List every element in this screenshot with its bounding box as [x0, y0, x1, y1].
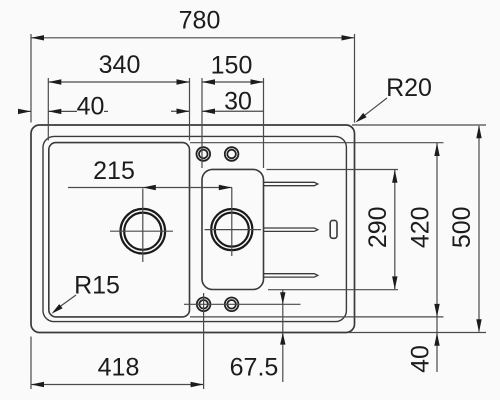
svg-text:290: 290 [364, 206, 392, 248]
svg-text:150: 150 [211, 52, 253, 80]
svg-text:418: 418 [98, 354, 140, 382]
svg-text:R15: R15 [74, 272, 120, 300]
svg-text:40: 40 [77, 93, 105, 121]
svg-text:R20: R20 [386, 74, 432, 102]
svg-text:40: 40 [407, 345, 435, 373]
svg-text:340: 340 [99, 51, 141, 79]
svg-text:30: 30 [224, 88, 252, 116]
svg-text:500: 500 [448, 206, 476, 248]
svg-text:67.5: 67.5 [230, 354, 279, 382]
svg-text:780: 780 [179, 7, 221, 35]
svg-text:215: 215 [93, 157, 135, 185]
svg-text:420: 420 [407, 206, 435, 248]
